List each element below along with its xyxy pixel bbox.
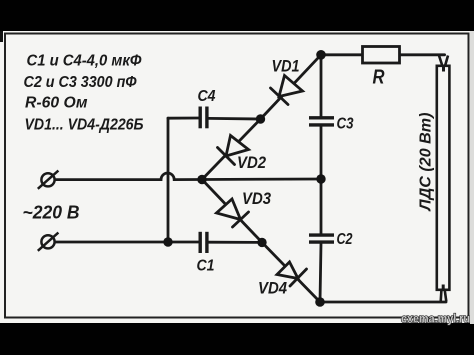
wire: top input wire with hop over vertical wire [55, 173, 321, 180]
diode VD3 [217, 199, 249, 227]
node X junction (top wire / right vertical) [316, 174, 325, 183]
svg-text:VD2: VD2 [237, 153, 266, 172]
wire: node T to resistor R [321, 53, 362, 56]
svg-text:С4: С4 [198, 88, 216, 105]
wire: node B to lamp bottom [320, 301, 446, 304]
svg-text:VD1: VD1 [272, 57, 300, 76]
svg-text:С1 и С4-4,0 мкФ: С1 и С4-4,0 мкФ [27, 53, 142, 70]
schematic border frame [5, 34, 469, 318]
diode VD2 [218, 136, 249, 165]
svg-text:VD1... VD4-Д226Б: VD1... VD4-Д226Б [25, 117, 144, 134]
capacitor C4 [200, 107, 207, 129]
capacitor C3 [309, 118, 334, 125]
watermark cxema.myl.ru [401, 314, 470, 326]
wire: diagonal node M1 to node T (through VD1) [261, 55, 322, 119]
bottom letterbox bar [0, 323, 474, 355]
node M2 junction [257, 238, 266, 247]
wire: diagonal node A to node M1 (through VD2) [202, 119, 261, 180]
input terminal 1 [38, 171, 59, 189]
wire: diagonal node M2 to node B (through VD4) [262, 242, 320, 302]
top letterbox bar [0, 0, 474, 31]
svg-text:cxema.myl.ru: cxema.myl.ru [401, 314, 470, 326]
capacitor C2 [309, 235, 334, 242]
wire: diagonal node A to node M2 (through VD3) [202, 180, 262, 243]
node A junction [197, 175, 206, 184]
wire: right vertical T to C3 [320, 55, 323, 117]
input terminal 2 [38, 233, 59, 251]
diode VD1 [271, 76, 303, 105]
wire: bottom input wire to C1 [55, 241, 198, 244]
svg-text:R: R [373, 67, 385, 89]
svg-text:R-60 Ом: R-60 Ом [25, 95, 88, 112]
wire: left vertical branch from C4 corner down to bottom wire [167, 118, 170, 242]
left edge dark smudge [0, 31, 3, 42]
resistor R [363, 47, 400, 64]
svg-text:С2 и С3 3300 пФ: С2 и С3 3300 пФ [24, 74, 137, 91]
capacitor C1 [200, 232, 207, 253]
lamp tube ЛДС [437, 56, 450, 302]
svg-text:С3: С3 [337, 116, 354, 133]
diode VD4 [277, 262, 307, 286]
node B junction [315, 297, 325, 307]
svg-text:С2: С2 [337, 231, 353, 248]
wire: right vertical C3 to C2 [320, 126, 323, 233]
wire: C1 right plate to node M2 [208, 241, 262, 244]
wire: corner to C4 left plate [168, 117, 198, 120]
svg-text:VD3: VD3 [242, 189, 271, 208]
svg-text:ЛДС (20 Вт): ЛДС (20 Вт) [418, 113, 435, 212]
right edge grey strip [470, 31, 474, 324]
node M1 junction [256, 114, 265, 123]
svg-text:С1: С1 [197, 258, 215, 275]
svg-text:VD4: VD4 [258, 279, 287, 298]
node D junction [163, 237, 172, 246]
wire: right vertical C2 to node B [320, 244, 321, 302]
svg-text:~220 В: ~220 В [23, 203, 80, 223]
node T junction [316, 50, 326, 60]
wire: C4 right plate to node M1 [208, 117, 260, 120]
wire: resistor R to lamp top [400, 53, 445, 56]
